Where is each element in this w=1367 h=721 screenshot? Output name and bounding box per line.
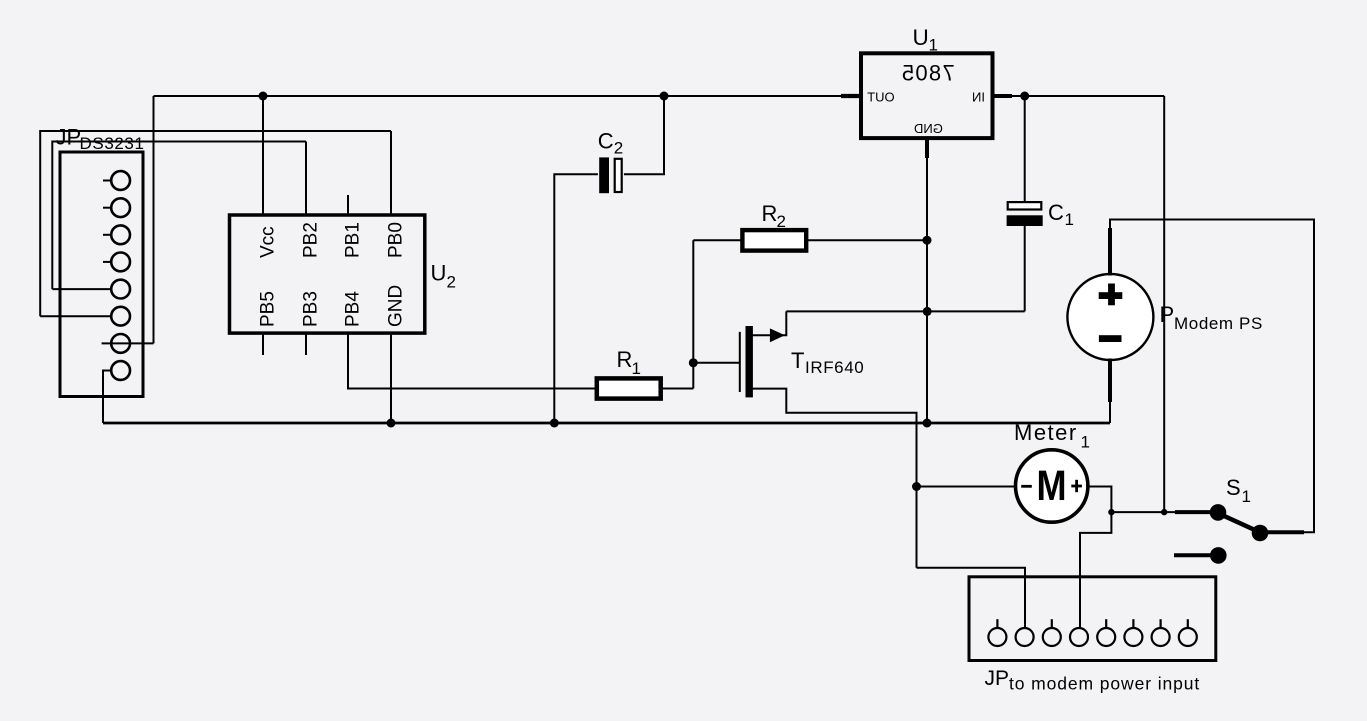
M letter xyxy=(1036,462,1066,510)
svg-text:IN: IN xyxy=(972,90,985,105)
wire gate vertical R1-R2 xyxy=(692,240,694,388)
svg-text:to modem power input: to modem power input xyxy=(1009,674,1200,694)
capacitor C1 xyxy=(1007,200,1074,229)
pin 7 xyxy=(111,334,130,353)
pin 4 xyxy=(103,261,111,263)
regulator U1 7805 xyxy=(841,25,1012,158)
wire drain rail to C1 bottom xyxy=(786,310,1024,312)
wire U1 GND vertical down to rail xyxy=(926,138,928,423)
wire drain lead xyxy=(753,311,787,335)
plus sign xyxy=(1099,292,1123,299)
node C2 top rail junction xyxy=(660,92,669,101)
node meter left junction xyxy=(912,482,921,491)
wire meter right xyxy=(1088,487,1111,513)
lower throw stub xyxy=(1174,553,1213,557)
node C1 IN junction xyxy=(1020,92,1029,101)
pin 1 xyxy=(103,180,111,182)
svg-text:U: U xyxy=(913,25,929,50)
node IN switch junction xyxy=(1161,509,1167,515)
pin IN thick stub xyxy=(993,94,1013,98)
wire upper-left horizontal to PB0 xyxy=(40,131,391,316)
svg-text:Meter: Meter xyxy=(1014,420,1078,445)
svg-text:1: 1 xyxy=(632,359,641,378)
resistor R2 xyxy=(742,201,806,251)
wire U1 IN to right vertical xyxy=(993,95,1165,97)
wire PB5 stub xyxy=(262,333,264,355)
svg-text:C: C xyxy=(598,128,614,153)
pin 3 xyxy=(1051,619,1053,628)
capacitor C2 xyxy=(598,128,623,193)
wire PB1 stub xyxy=(347,195,349,215)
right thick stub xyxy=(1260,530,1304,534)
svg-text:JP: JP xyxy=(985,667,1010,690)
svg-text:C: C xyxy=(1048,200,1064,225)
svg-text:1: 1 xyxy=(1081,433,1090,452)
node R2 right junction xyxy=(923,236,932,245)
wire to JP pin2 xyxy=(917,568,1026,628)
wire C1 bottom vertical xyxy=(1024,226,1026,311)
gate bar xyxy=(739,332,741,392)
svg-text:1: 1 xyxy=(1242,487,1251,506)
wire pin6 stub xyxy=(40,315,111,317)
node U1 GND rail junction xyxy=(923,419,932,428)
pin 6 xyxy=(1132,619,1134,628)
wire C2 left to ground rail xyxy=(554,174,598,423)
svg-text:2: 2 xyxy=(614,139,623,158)
arrow xyxy=(770,328,785,342)
wire PS plus loop to switch right xyxy=(1110,220,1314,533)
minus terminal mark xyxy=(1021,485,1032,488)
node meter right junction xyxy=(1108,509,1114,515)
svg-text:U: U xyxy=(431,261,447,286)
svg-text:PB2: PB2 xyxy=(301,222,322,258)
wire R2 right to GND net vertical xyxy=(807,239,927,241)
wire pin7 through to vertical xyxy=(102,342,154,344)
wire pin8 to ground rail xyxy=(103,371,111,424)
svg-text:T: T xyxy=(791,348,804,373)
svg-text:DS3231: DS3231 xyxy=(80,134,145,153)
pin 5 xyxy=(111,280,130,299)
wire R1 right to gate vertical xyxy=(662,388,693,390)
wire source lead xyxy=(753,389,917,568)
svg-text:OUT: OUT xyxy=(867,90,895,105)
wire Vcc vertical xyxy=(262,96,264,215)
pin 8 xyxy=(1187,619,1189,628)
svg-text:Vcc: Vcc xyxy=(258,226,279,258)
svg-text:JP: JP xyxy=(56,125,82,150)
wire C1 top vertical xyxy=(1024,96,1026,201)
svg-text:PB0: PB0 xyxy=(386,222,407,258)
wire C2 right to top rail xyxy=(624,96,664,174)
wire ground rail xyxy=(103,422,1110,425)
lever xyxy=(1216,512,1259,532)
wire pin5 stub xyxy=(52,288,111,290)
pin 7 xyxy=(1159,619,1161,628)
node C2 rail junction xyxy=(550,419,559,428)
plus terminal mark xyxy=(1071,485,1082,488)
bottom lead thick xyxy=(1108,359,1112,403)
wire PB4 to R1 left xyxy=(348,333,596,388)
connector JP to modem power input xyxy=(969,577,1216,694)
svg-text:R: R xyxy=(762,201,778,226)
svg-text:S: S xyxy=(1226,475,1241,500)
svg-text:IRF640: IRF640 xyxy=(805,358,864,377)
IC U2 xyxy=(230,215,456,333)
svg-text:2: 2 xyxy=(447,273,456,292)
wire lower-left horizontal to PB2 xyxy=(52,142,306,290)
wire meter left xyxy=(917,486,1017,488)
meter Meter1 xyxy=(1014,420,1090,522)
wire PB2 vertical xyxy=(305,142,307,216)
node drain C1 junction xyxy=(923,307,932,316)
pin OUT thick stub xyxy=(841,94,861,98)
svg-text:P: P xyxy=(1160,302,1175,327)
svg-text:GND: GND xyxy=(386,285,407,327)
svg-text:R: R xyxy=(617,347,633,372)
wire gate tap xyxy=(693,362,740,364)
svg-text:GND: GND xyxy=(914,121,943,136)
channel bar xyxy=(746,326,753,397)
pin 3 xyxy=(103,234,111,236)
top lead thick xyxy=(1108,228,1112,276)
pin 6 xyxy=(111,307,130,326)
svg-text:PB4: PB4 xyxy=(343,291,364,327)
resistor R1 xyxy=(597,347,661,399)
wire right vertical IN to switch xyxy=(1163,96,1165,512)
svg-text:PB5: PB5 xyxy=(258,291,279,327)
pin 2 xyxy=(1016,628,1034,646)
pin 1 xyxy=(996,619,998,628)
transistor T IRF640 xyxy=(740,326,865,397)
wire U2 GND vertical xyxy=(390,333,392,423)
pin 2 xyxy=(103,207,111,209)
pin 8 xyxy=(111,361,130,380)
pin 4 xyxy=(1070,628,1088,646)
svg-text:7805: 7805 xyxy=(901,61,955,86)
wire top +5V rail xyxy=(154,95,862,97)
feed thick stub xyxy=(1175,510,1216,514)
wire meter to switch xyxy=(1111,511,1214,513)
node U2 GND rail junction xyxy=(387,419,396,428)
contact dot common xyxy=(1210,504,1227,521)
node Vcc rail junction xyxy=(259,92,268,101)
svg-text:2: 2 xyxy=(777,212,786,231)
contact dot lower xyxy=(1210,547,1227,564)
wire PB3 stub xyxy=(305,333,307,355)
node gate junction xyxy=(689,358,698,367)
wire pin7 vertical to top rail xyxy=(153,96,155,343)
wire to JP pin4 xyxy=(1080,512,1111,628)
connector JP DS3231 xyxy=(56,125,145,397)
pin 5 xyxy=(1105,619,1107,628)
pin GND thick stub xyxy=(925,138,929,158)
svg-text:PB3: PB3 xyxy=(301,291,322,327)
wire R2 left xyxy=(693,239,741,241)
svg-text:Modem PS: Modem PS xyxy=(1174,314,1263,333)
svg-text:PB1: PB1 xyxy=(343,222,364,258)
switch S1 xyxy=(1174,475,1304,564)
minus sign xyxy=(1099,335,1122,342)
svg-text:1: 1 xyxy=(1065,210,1074,229)
svg-text:1: 1 xyxy=(929,35,938,54)
contact dot right xyxy=(1252,525,1269,542)
svg-text:M: M xyxy=(1036,462,1066,510)
wire PS minus to ground rail xyxy=(1109,400,1111,423)
source P Modem PS xyxy=(1067,228,1262,402)
wire PB0 vertical xyxy=(390,131,392,215)
